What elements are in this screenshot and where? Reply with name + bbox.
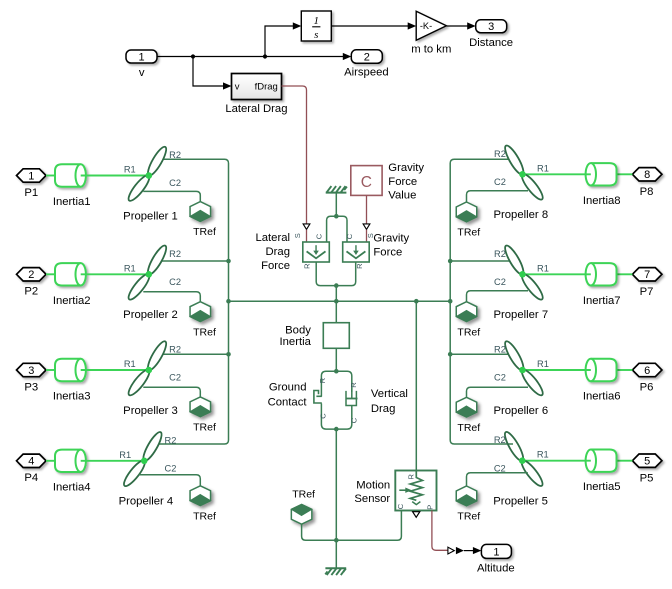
propeller Propeller 5 [502,430,526,463]
svg-text:P6: P6 [640,382,654,394]
svg-text:R2: R2 [494,149,506,159]
svg-text:R1: R1 [537,163,549,173]
svg-text:R2: R2 [169,150,181,160]
svg-text:1: 1 [138,51,144,63]
svg-text:TRef: TRef [292,489,315,501]
svg-text:Inertia: Inertia [279,336,311,348]
C2 wire propeller 4 to TRef [139,475,201,486]
svg-text:C2: C2 [165,464,177,474]
port P4 [17,454,47,467]
svg-text:Force: Force [373,247,402,259]
thermal reference TRef of propeller 6 [456,397,477,417]
svg-text:Propeller 1: Propeller 1 [123,210,178,222]
C2 wire propeller 7 to TRef [467,291,529,302]
inertia Inertia8 [586,163,617,185]
svg-text:Lateral: Lateral [255,232,290,244]
hard stop Ground Contact symbol [317,397,326,404]
wire P3 to Inertia3 [46,369,55,371]
svg-text:Sensor: Sensor [354,493,390,505]
port P7 [632,268,662,281]
C2 wire propeller 3 to TRef [143,387,200,397]
wire R1 Propeller 5 to Inertia5 [522,460,591,462]
svg-text:s: s [314,29,318,41]
svg-text:Propeller 7: Propeller 7 [493,309,548,321]
svg-text:Inertia6: Inertia6 [583,391,621,403]
svg-text:TRef: TRef [457,227,480,239]
port P3 [17,363,47,376]
svg-text:Value: Value [388,190,416,202]
wire R1 Inertia3 to Propeller 3 [81,369,149,371]
svg-text:R1: R1 [119,450,131,460]
constant Gravity Force Value [351,166,382,196]
port P8 [632,168,662,181]
R2 wire propeller 3 [163,353,229,355]
svg-text:2: 2 [28,269,34,281]
svg-text:P4: P4 [24,472,38,484]
thermal reference TRef of propeller 4 [190,486,211,506]
svg-text:v: v [235,81,240,92]
wire v to Airspeed [157,56,345,58]
port P5 [632,454,662,467]
svg-text:P2: P2 [24,286,38,298]
svg-text:1: 1 [314,15,320,27]
svg-text:7: 7 [644,269,650,281]
node junction on v wire [191,54,195,58]
svg-text:Gravity: Gravity [388,162,424,174]
svg-text:R1: R1 [537,359,549,369]
thermal reference TRef of propeller 3 [190,397,211,417]
svg-text:Inertia8: Inertia8 [583,195,621,207]
svg-text:Propeller 2: Propeller 2 [123,309,178,321]
R2 wire propeller 2 [162,260,229,262]
outport 1 Altitude [481,544,511,558]
svg-text:1: 1 [493,546,499,558]
svg-text:R2: R2 [169,345,181,355]
wire Motion Sensor P to Altitude (physical signal) [432,511,448,551]
svg-text:Propeller 3: Propeller 3 [123,405,178,417]
outport 3 Distance [476,20,507,33]
inertia Inertia1 [55,164,86,186]
svg-text:C2: C2 [169,373,181,383]
svg-text:fDrag: fDrag [255,81,278,92]
C2 wire propeller 6 to TRef [467,387,529,397]
svg-text:R2: R2 [494,345,506,355]
port P2 [17,268,47,281]
wire bus to Body Inertia [335,301,337,323]
svg-text:Distance: Distance [469,37,513,49]
svg-text:Ground: Ground [269,382,307,394]
svg-text:C2: C2 [494,373,506,383]
wire integrator to gain [331,25,408,27]
svg-text:Force: Force [388,176,417,188]
svg-text:R2: R2 [165,435,177,445]
C2 wire propeller 2 to TRef [143,292,200,302]
inertia Inertia5 [586,450,617,472]
wire Inertia6 to P6 [617,369,633,371]
wire R1 Inertia4 to Propeller 4 [81,460,145,462]
thermal reference TRef of propeller 2 [190,302,211,322]
inertia Inertia4 [55,450,86,472]
svg-text:Inertia4: Inertia4 [53,481,91,493]
right column bus [450,159,513,444]
svg-text:3: 3 [488,21,494,33]
port P6 [632,363,662,376]
C2 wire propeller 1 to TRef [143,191,200,201]
svg-text:Airspeed: Airspeed [344,67,389,79]
left column bus [159,159,229,444]
svg-text:Drag: Drag [371,403,396,415]
svg-text:Lateral Drag: Lateral Drag [225,103,287,115]
gain m to km [416,11,446,40]
svg-text:TRef: TRef [457,326,480,338]
wire gain to Distance [446,25,468,27]
svg-text:Inertia3: Inertia3 [53,391,91,403]
svg-text:C: C [314,233,323,239]
svg-text:P1: P1 [24,187,38,199]
svg-text:R1: R1 [537,263,549,273]
thermal reference TRef of propeller 5 [456,486,477,506]
wire P4 to Inertia4 [46,460,55,462]
svg-text:R2: R2 [494,435,506,445]
PS-Simulink conversion arrows [448,547,454,554]
unconnected V port triangle [413,512,420,518]
propeller Propeller 2 [145,243,169,276]
svg-text:C: C [349,417,358,423]
svg-text:R1: R1 [124,263,136,273]
port P1 [17,169,47,182]
svg-text:Propeller 6: Propeller 6 [493,405,548,417]
svg-text:TRef: TRef [193,510,216,522]
svg-text:R: R [303,263,312,269]
wire R1 Propeller 7 to Inertia7 [523,273,591,275]
svg-text:P8: P8 [640,186,654,198]
svg-text:Contact: Contact [268,397,308,409]
svg-text:Motion: Motion [356,479,390,491]
C2 wire propeller 5 to TRef [467,473,528,486]
main horizontal physical bus [229,300,451,302]
wire R1 Propeller 8 to Inertia8 [523,173,591,175]
svg-text:TRef: TRef [193,326,216,338]
svg-text:1: 1 [28,170,34,182]
svg-text:3: 3 [28,365,34,377]
wire Gravity Force Value to Gravity Force (physical signal) [366,195,368,223]
svg-text:Drag: Drag [266,246,291,258]
propeller Propeller 3 [145,339,169,372]
svg-text:C2: C2 [169,277,181,287]
svg-text:6: 6 [644,365,650,377]
svg-text:Force: Force [261,260,290,272]
svg-text:C2: C2 [494,177,506,187]
propeller Propeller 6 [502,339,526,372]
svg-text:TRef: TRef [457,422,480,434]
svg-text:TRef: TRef [457,511,480,523]
svg-text:P: P [426,505,435,510]
svg-text:C2: C2 [169,178,181,188]
inertia Inertia7 [586,263,617,285]
wire R1 Inertia2 to Propeller 2 [81,273,149,275]
subsystem Lateral Drag [232,74,282,100]
svg-text:2: 2 [364,51,370,63]
svg-text:R2: R2 [494,249,506,259]
integrator block 1/s [301,11,331,41]
svg-text:R1: R1 [537,450,549,460]
inertia Inertia6 [586,359,617,381]
svg-text:R2: R2 [169,249,181,259]
force actuator Lateral Drag Force [303,242,330,262]
svg-text:C2: C2 [494,463,506,473]
svg-text:Inertia7: Inertia7 [583,295,621,307]
C2 wire propeller 8 to TRef [467,191,529,202]
ground symbol bottom [325,567,346,569]
damper Vertical Drag symbol [347,392,357,405]
svg-text:R1: R1 [124,359,136,369]
wire v to Lateral Drag [193,57,224,87]
wire Inertia5 to P5 [617,460,633,462]
node top of contact pair [334,369,339,374]
svg-text:R1: R1 [124,165,136,175]
outport 2 Airspeed [351,50,382,64]
thermal reference TRef of propeller 1 [190,202,211,222]
svg-text:C: C [361,174,372,191]
svg-text:R: R [407,474,416,480]
svg-text:8: 8 [644,169,650,181]
ground (PS reference) top [326,192,347,194]
propeller Propeller 8 [502,143,526,176]
force actuator Gravity Force [343,242,370,262]
svg-text:P3: P3 [24,381,38,393]
svg-text:Propeller 5: Propeller 5 [493,496,548,508]
svg-text:Inertia5: Inertia5 [583,481,621,493]
svg-text:Inertia2: Inertia2 [53,295,91,307]
svg-text:TRef: TRef [193,226,216,238]
wire ground to C ports [335,193,337,217]
svg-text:5: 5 [644,456,650,468]
svg-text:4: 4 [28,456,34,468]
svg-text:Propeller 8: Propeller 8 [493,209,548,221]
wire TRef to ground node [302,524,337,540]
svg-text:P5: P5 [640,472,654,484]
svg-text:C: C [396,503,405,509]
inport 1 (v) [126,50,157,63]
thermal reference TRef of propeller 7 [456,302,477,322]
wire down to ground [335,429,337,568]
svg-text:m to km: m to km [411,44,451,56]
svg-text:Propeller 4: Propeller 4 [119,496,174,508]
svg-text:v: v [139,67,145,79]
svg-text:P7: P7 [640,286,654,298]
wire Motion Sensor C to ground node [336,511,401,541]
wire P1 to Inertia1 [46,175,55,177]
wire bus to Motion Sensor R [415,301,417,470]
propeller Propeller 7 [502,243,526,276]
wire Inertia8 to P8 [617,173,633,175]
svg-text:Inertia1: Inertia1 [53,196,91,208]
wire Body Inertia down [335,348,337,371]
svg-text:Vertical: Vertical [371,388,408,400]
R2 wire propeller 6 [450,353,508,355]
thermal reference TRef of propeller 8 [456,202,477,222]
wire to integrator [265,26,294,57]
svg-text:TRef: TRef [193,422,216,434]
inertia Inertia3 [55,359,86,381]
svg-text:R: R [318,377,327,383]
wire P2 to Inertia2 [46,273,55,275]
svg-text:Gravity: Gravity [373,233,409,245]
node bottom of contact pair [334,427,339,432]
wire fDrag (physical signal) down to Lateral Drag Force [282,86,307,224]
svg-text:C: C [345,233,354,239]
mass Body Inertia [323,323,349,349]
wire Inertia7 to P7 [617,273,633,275]
svg-text:Altitude: Altitude [477,562,515,574]
PS arrowheads into S ports [303,224,310,230]
svg-text:Body: Body [285,324,311,336]
wire loop Ground Contact / Vertical Drag [321,371,336,429]
propeller Propeller 1 [145,145,169,178]
R2 wire propeller 7 [450,260,509,262]
motion sensor block [395,471,436,511]
svg-text:S: S [293,233,302,238]
wire R1 Inertia1 to Propeller 1 [81,175,149,177]
propeller Propeller 4 [140,430,164,463]
wire R1 Propeller 6 to Inertia6 [523,369,591,371]
svg-text:-K-: -K- [420,21,432,31]
svg-text:C2: C2 [494,277,506,287]
svg-text:R: R [349,382,358,388]
svg-text:C: C [319,413,328,419]
inertia Inertia2 [55,263,86,285]
